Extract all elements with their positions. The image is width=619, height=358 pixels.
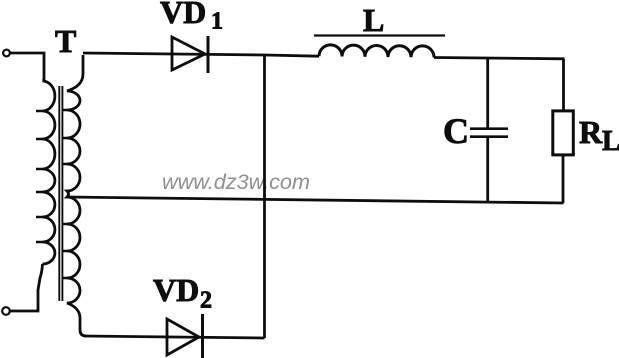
wire primary bottom to terminal [10,264,43,311]
capacitor C plates [470,129,508,137]
terminal bottom-left input [2,307,10,315]
inductor core bar [314,34,445,36]
terminal top-left input [3,50,10,57]
transformer secondary winding [67,55,86,336]
secondary winding cusp ticks [63,110,69,278]
svg-text:C: C [443,111,469,151]
diode VD1 [172,37,205,70]
diode VD1 cathode bar [207,36,210,73]
transformer T primary winding [43,81,55,264]
wire capacitor top lead [486,58,489,128]
wire resistor bottom lead [562,155,565,203]
svg-text:R: R [579,114,603,150]
wire junction vertical VD1/VD2 cathodes [263,55,266,338]
diode VD2 [167,319,199,355]
wire secondary top to VD1 [83,53,319,56]
wire secondary bottom to VD2 [84,336,265,338]
diode VD2 cathode bar [201,314,204,358]
primary winding cusp ticks [36,111,43,242]
svg-text:L: L [602,126,619,157]
inductor L [319,45,434,58]
svg-text:T: T [55,23,76,59]
svg-text:L: L [363,2,384,38]
svg-text:2: 2 [200,288,212,314]
wire capacitor bottom lead [486,137,489,203]
wire resistor top lead [562,59,565,111]
svg-text:VD: VD [160,0,206,30]
transformer core [59,86,62,301]
svg-text:VD: VD [153,272,199,308]
resistor RL [553,111,574,155]
svg-text:www.dz3w.com: www.dz3w.com [162,171,310,194]
wire top-left input to primary [10,53,44,81]
svg-text:1: 1 [211,9,223,35]
wire inductor to top-right [434,58,565,59]
wire center tap to right [67,197,564,203]
